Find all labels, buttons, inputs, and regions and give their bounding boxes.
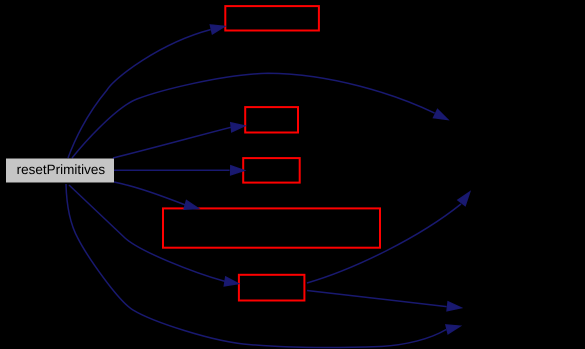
edge node5->node8 (bottom right, hidden node): [307, 291, 462, 312]
node3 red box (lower small): [243, 158, 300, 183]
edge resetPrimitives->node2 (upper small box): [113, 122, 246, 158]
edge resetPrimitives->node6 (upper right, hidden node): [72, 73, 449, 158]
node4 red box (large): [163, 208, 380, 247]
edge resetPrimitives->node5 (bottom box): [69, 185, 240, 286]
node1 red box (top): [225, 6, 319, 30]
edge resetPrimitives->node8 (bottom right, hidden node): [66, 184, 461, 347]
node resetPrimitives (current node, grey): [6, 159, 114, 183]
edge resetPrimitives->node1 (top box): [68, 25, 226, 159]
edge resetPrimitives->node4 (large box): [114, 182, 200, 210]
edge node5->node7 (middle right, hidden node): [307, 191, 471, 283]
node5 red box (bottom): [239, 275, 305, 301]
node2 red box (upper small): [245, 107, 298, 132]
edge resetPrimitives->node3 (lower small box): [114, 165, 246, 175]
label text: resetPrimitives (Liberation Sans 13.5px, outlined): [18, 164, 105, 174]
